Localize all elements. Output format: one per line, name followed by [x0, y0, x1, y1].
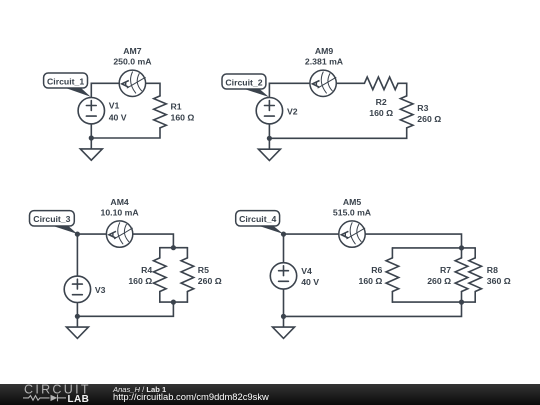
wire stem to ground circuit 4 — [283, 316, 285, 327]
node dot bank top circuit 3 — [171, 245, 176, 250]
node dot top-left circuit 4 — [281, 232, 286, 237]
node junction dot bottom circuit 3 — [75, 314, 80, 319]
wire bottom bar of bank — [392, 301, 475, 303]
wire bottom bar of bank — [160, 301, 188, 303]
svg-text:AM9: AM9 — [315, 46, 334, 56]
svg-text:Circuit_3: Circuit_3 — [33, 214, 70, 224]
ammeter AM4 — [106, 221, 132, 247]
resistor R5 — [181, 258, 194, 292]
svg-text:V2: V2 — [287, 107, 298, 117]
wire from ammeter AM7 to resistor R1 top — [146, 83, 160, 96]
resistor R4 — [154, 258, 167, 292]
ground circuit 3 — [66, 327, 88, 338]
svg-text:2.381 mA: 2.381 mA — [305, 57, 344, 67]
wire R1 bottom to bottom rail to V1 bottom — [91, 124, 160, 138]
svg-text:R3: R3 — [417, 103, 428, 113]
label AM7 value — [113, 46, 152, 67]
svg-text:40 V: 40 V — [109, 112, 127, 122]
label R5 260 ohm — [198, 265, 222, 286]
wire R6 brackets — [391, 248, 393, 258]
svg-text:160 Ω: 160 Ω — [369, 108, 393, 118]
logo waveform resistor and diode — [23, 395, 66, 402]
wire bank feed to bottom rail to V4 — [284, 289, 462, 316]
svg-text:Circuit_2: Circuit_2 — [225, 77, 262, 87]
label AM5 value — [333, 197, 372, 218]
svg-text:V4: V4 — [301, 266, 312, 276]
node dot bank bottom circuit 3 — [171, 300, 176, 305]
svg-text:160 Ω: 160 Ω — [171, 113, 195, 123]
wire R3 bottom to bottom rail to V2 bottom — [269, 124, 406, 138]
voltage source V3 — [64, 276, 90, 302]
resistor R3 — [400, 96, 413, 128]
wire stem to ground circuit 1 — [90, 138, 92, 149]
svg-text:AM7: AM7 — [123, 46, 142, 56]
wire top bar of R4 R5 bank — [160, 247, 188, 249]
label R3 260 ohm — [417, 103, 441, 124]
resistor R1 — [154, 96, 167, 128]
node dot bank top circuit 4 — [459, 245, 464, 250]
svg-text:V3: V3 — [95, 285, 106, 295]
wire stem to ground circuit 3 — [76, 316, 78, 327]
ground circuit 2 — [258, 149, 280, 160]
wire stem to ground circuit 2 — [268, 138, 270, 149]
wire ammeter AM9 to resistor R2 — [336, 82, 364, 84]
wire R4 brackets — [159, 248, 161, 258]
label AM9 value — [305, 46, 344, 67]
ground circuit 1 — [80, 149, 102, 160]
wire bank feed to bottom rail to V3 — [77, 302, 173, 316]
svg-text:160 Ω: 160 Ω — [128, 276, 152, 286]
wire R8 brackets — [474, 248, 476, 258]
footer title text — [113, 385, 166, 394]
node junction dot bottom circuit 4 — [281, 314, 286, 319]
svg-text:360 Ω: 360 Ω — [487, 276, 511, 286]
node dot bank bottom circuit 4 — [459, 300, 464, 305]
svg-text:260 Ω: 260 Ω — [427, 276, 451, 286]
voltage source V2 — [256, 98, 282, 124]
wire top rail circuit 2 — [269, 83, 310, 97]
label R6 160 ohm — [359, 265, 383, 286]
wire R5 brackets — [186, 248, 188, 258]
node dot top-left circuit 3 — [75, 232, 80, 237]
wire top bar of R6 R7 R8 bank — [392, 247, 475, 249]
svg-text:260 Ω: 260 Ω — [198, 276, 222, 286]
wire V3 top stem — [76, 234, 78, 276]
label R4 160 ohm — [128, 265, 152, 286]
svg-text:260 Ω: 260 Ω — [417, 114, 441, 124]
svg-text:R8: R8 — [487, 265, 498, 275]
resistor R6 — [386, 258, 399, 292]
resistor R8 — [469, 258, 482, 292]
svg-text:R4: R4 — [141, 265, 152, 275]
svg-text:R1: R1 — [171, 102, 182, 112]
wire top rail circuit 4 — [284, 233, 339, 235]
svg-text:R5: R5 — [198, 265, 209, 275]
ammeter AM5 — [339, 221, 365, 247]
wire top rail circuit 1 — [91, 83, 119, 97]
svg-text:515.0 mA: 515.0 mA — [333, 208, 372, 218]
resistor R7 — [455, 258, 468, 292]
svg-text:R7: R7 — [440, 265, 451, 275]
svg-text:AM4: AM4 — [110, 197, 129, 207]
wire ammeter AM4 to parallel bank feed — [133, 234, 174, 248]
footer bar — [0, 384, 540, 405]
ammeter AM9 — [310, 70, 336, 96]
wire R2 to R3 top — [398, 83, 407, 96]
svg-text:AM5: AM5 — [343, 197, 362, 207]
svg-text:V1: V1 — [109, 101, 120, 111]
svg-text:Circuit_4: Circuit_4 — [239, 214, 276, 224]
label R1 160 ohm — [171, 102, 195, 123]
label V1 40 V — [109, 101, 127, 123]
node flag Circuit_2 — [222, 74, 269, 97]
svg-text:R6: R6 — [371, 265, 382, 275]
CircuitLab logo — [0, 384, 110, 405]
wire V4 top stem — [283, 234, 285, 263]
voltage source V1 — [78, 98, 104, 124]
svg-text:250.0 mA: 250.0 mA — [113, 57, 152, 67]
label AM4 value — [101, 197, 140, 218]
wire R7 brackets — [461, 248, 463, 258]
resistor R2 — [364, 77, 398, 90]
voltage source V4 — [270, 263, 296, 289]
node flag Circuit_3 — [30, 211, 78, 234]
node flag Circuit_4 — [236, 211, 284, 234]
svg-text:LAB: LAB — [68, 394, 90, 405]
svg-text:R2: R2 — [376, 97, 387, 107]
wire ammeter AM5 to bank feed — [365, 234, 461, 248]
label R7 260 ohm — [427, 265, 451, 286]
svg-text:10.10 mA: 10.10 mA — [101, 208, 140, 218]
label R8 360 ohm — [487, 265, 511, 286]
node flag Circuit_1 — [44, 73, 91, 97]
ammeter U AM7 — [119, 70, 145, 96]
svg-text:160 Ω: 160 Ω — [359, 276, 383, 286]
svg-text:Circuit_1: Circuit_1 — [47, 76, 84, 86]
ground circuit 4 — [273, 327, 295, 338]
node junction dot circuit 1 — [89, 135, 94, 140]
label R2 160 ohm — [369, 97, 393, 118]
svg-text:40 V: 40 V — [301, 277, 319, 287]
label V4 40 V — [301, 266, 319, 287]
wire top rail circuit 3 — [77, 233, 106, 235]
node junction dot circuit 2 — [267, 136, 272, 141]
